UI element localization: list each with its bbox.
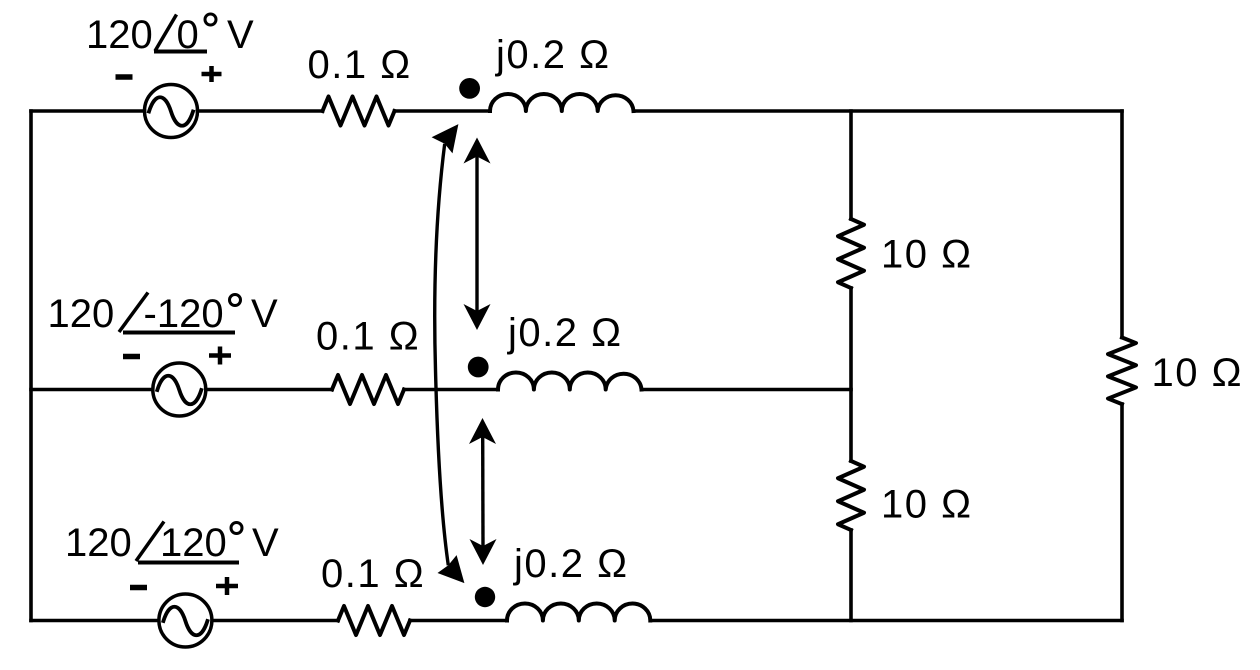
wire row3 inductor to right edge bbox=[651, 619, 1123, 623]
minus sign Vc bbox=[130, 585, 147, 591]
wire row2 inductor to mid vertical bbox=[642, 388, 852, 392]
degree mark Vc bbox=[231, 523, 242, 534]
coupling dot phase C bbox=[475, 587, 495, 607]
resistor 0.1 ohm phase A bbox=[323, 97, 395, 126]
wire right vertical bottom segment bbox=[1120, 404, 1124, 621]
angle slash Va bbox=[155, 15, 177, 52]
wire right vertical upper segment bbox=[1120, 111, 1124, 338]
inductor j0.2 ohm phase B bbox=[498, 372, 642, 389]
svg-text:120: 120 bbox=[65, 521, 132, 565]
svg-text:10 Ω: 10 Ω bbox=[1152, 351, 1244, 395]
minus sign Va bbox=[116, 74, 133, 80]
wire mid vertical bottom segment bbox=[849, 530, 853, 621]
svg-text:10 Ω: 10 Ω bbox=[881, 233, 973, 277]
wire row1 from source to resistor bbox=[198, 109, 323, 113]
plus sign Vb bbox=[209, 347, 231, 365]
svg-text:j0.2 Ω: j0.2 Ω bbox=[495, 33, 611, 77]
plus sign Vc bbox=[216, 577, 238, 595]
degree mark Va bbox=[205, 14, 216, 25]
svg-text:10 Ω: 10 Ω bbox=[881, 483, 973, 527]
resistor 10 ohm right load bbox=[1108, 338, 1136, 405]
coupling dot phase B bbox=[468, 357, 489, 378]
wire row3 resistor to inductor bbox=[410, 619, 507, 623]
wire row1 left segment bbox=[31, 109, 145, 113]
wire mid vertical middle segment bbox=[849, 288, 853, 461]
mutual coupling arrow phases A-C curved bbox=[432, 124, 465, 583]
label source Vc value 120&#8736;120&#176; V bbox=[65, 521, 279, 565]
wire left vertical bus bbox=[29, 111, 33, 621]
svg-text:-120: -120 bbox=[144, 292, 224, 336]
angle slash Vb bbox=[119, 293, 148, 333]
angle slash Vc bbox=[136, 522, 164, 562]
svg-text:120: 120 bbox=[160, 521, 227, 565]
svg-text:j0.2 Ω: j0.2 Ω bbox=[513, 542, 629, 586]
svg-text:120: 120 bbox=[48, 292, 115, 336]
wire row2 resistor to inductor bbox=[404, 388, 498, 392]
wire row1 inductor to right edge bbox=[634, 109, 1123, 113]
wire mid vertical upper segment bbox=[849, 111, 853, 219]
minus sign Vb bbox=[123, 354, 140, 360]
resistor 10 ohm upper load bbox=[838, 219, 864, 288]
mutual coupling arrow phases A-B bbox=[464, 138, 491, 331]
svg-text:0.1 Ω: 0.1 Ω bbox=[308, 43, 412, 87]
label source Vb value 120&#8736;-120&#176; V bbox=[48, 292, 279, 336]
svg-text:0.1 Ω: 0.1 Ω bbox=[321, 552, 425, 596]
resistor 0.1 ohm phase B bbox=[332, 375, 404, 404]
wire row3 from source to resistor bbox=[213, 619, 339, 623]
svg-text:V: V bbox=[252, 521, 279, 565]
angle underline Vc bbox=[138, 561, 239, 565]
voltage source Va 120&#8736;0&#176; V bbox=[145, 85, 198, 138]
angle underline Va bbox=[154, 50, 207, 54]
svg-text:V: V bbox=[227, 13, 254, 57]
degree mark Vb bbox=[230, 295, 241, 306]
resistor 0.1 ohm phase C bbox=[338, 606, 410, 635]
svg-text:0.1 Ω: 0.1 Ω bbox=[316, 315, 420, 359]
svg-text:j0.2 Ω: j0.2 Ω bbox=[507, 311, 623, 355]
inductor j0.2 ohm phase A bbox=[490, 94, 634, 111]
voltage source Vb 120&#8736;-120&#176; V bbox=[153, 363, 206, 416]
wire row2 from source to resistor bbox=[207, 388, 333, 392]
voltage source Vc 120&#8736;120&#176; V bbox=[159, 594, 212, 647]
angle underline Vb bbox=[123, 331, 235, 335]
mutual coupling arrow phases B-C bbox=[469, 418, 497, 565]
wire row1 resistor to inductor bbox=[395, 109, 491, 113]
label source Va value 120&#8736;0&#176; V bbox=[86, 13, 254, 57]
coupling dot phase A bbox=[459, 78, 480, 99]
wire row2 left segment bbox=[31, 388, 152, 392]
resistor 10 ohm lower load bbox=[838, 461, 864, 530]
wire row3 left segment bbox=[31, 619, 158, 623]
plus sign Va bbox=[202, 66, 222, 82]
inductor j0.2 ohm phase C bbox=[507, 604, 650, 621]
svg-text:120: 120 bbox=[86, 13, 153, 57]
svg-text:V: V bbox=[251, 292, 278, 336]
